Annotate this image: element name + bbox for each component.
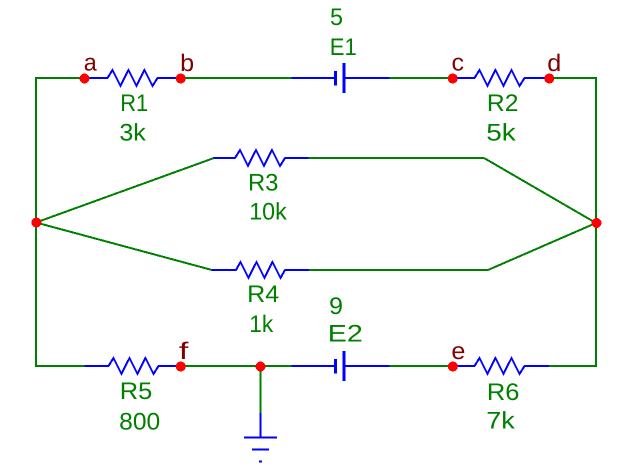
svg-text:a: a bbox=[84, 50, 98, 77]
svg-text:f: f bbox=[179, 338, 189, 365]
svg-text:E2: E2 bbox=[328, 321, 363, 348]
node left junction bbox=[31, 218, 41, 228]
wire diagonal R4 to right node bbox=[488, 223, 596, 270]
resistor R5 bbox=[84, 358, 180, 374]
wire R4 to right diagonal bbox=[308, 269, 488, 271]
wire bottom: R6 to corner bbox=[549, 365, 598, 367]
resistor R3 bbox=[214, 150, 309, 166]
wire ground stem bbox=[260, 366, 262, 414]
svg-text:1k: 1k bbox=[249, 311, 274, 338]
battery E2 bbox=[292, 365, 336, 367]
wire right vertical bbox=[595, 77, 597, 367]
wire diagonal R3 to right node bbox=[484, 158, 596, 223]
svg-text:e: e bbox=[451, 338, 465, 365]
svg-text:R5: R5 bbox=[120, 378, 153, 405]
node b bbox=[176, 74, 186, 84]
resistor R4 bbox=[212, 262, 310, 278]
svg-text:d: d bbox=[547, 50, 561, 77]
resistor R6 bbox=[453, 358, 549, 374]
wire diagonal left node to R4 bbox=[36, 223, 212, 271]
ground bbox=[260, 413, 262, 438]
wire left vertical bbox=[35, 77, 37, 367]
wire diagonal left node to R3 bbox=[36, 158, 214, 223]
svg-text:R2: R2 bbox=[487, 90, 519, 117]
resistor R2 bbox=[453, 70, 550, 86]
node ground junction bbox=[256, 362, 266, 372]
wire top: E1 to node c bbox=[390, 77, 454, 79]
svg-text:E1: E1 bbox=[330, 34, 357, 61]
wire top: corner to node a bbox=[35, 77, 85, 79]
wire R3 to right diagonal bbox=[308, 157, 484, 159]
node right junction bbox=[592, 218, 602, 228]
wire top: node d to corner bbox=[549, 77, 598, 79]
svg-text:R1: R1 bbox=[120, 90, 148, 117]
wire bottom: corner to R5 bbox=[35, 365, 85, 367]
svg-text:5k: 5k bbox=[486, 120, 517, 147]
wire top: node b to E1 bbox=[180, 77, 292, 79]
svg-text:800: 800 bbox=[119, 408, 160, 435]
node c bbox=[448, 74, 458, 84]
resistor R1 bbox=[85, 70, 181, 86]
svg-text:c: c bbox=[452, 50, 465, 77]
svg-text:9: 9 bbox=[329, 293, 343, 320]
node e bbox=[448, 362, 458, 372]
svg-text:3k: 3k bbox=[119, 120, 147, 147]
node d bbox=[544, 74, 554, 84]
svg-text:R6: R6 bbox=[487, 379, 520, 406]
wire bottom: node f to E2 bbox=[180, 365, 293, 367]
battery E1 bbox=[292, 77, 336, 79]
svg-text:7k: 7k bbox=[486, 408, 516, 435]
svg-text:10k: 10k bbox=[249, 199, 287, 226]
wire bottom: E2 to node e bbox=[389, 365, 454, 367]
node a bbox=[80, 74, 90, 84]
node f bbox=[176, 362, 186, 372]
svg-text:R3: R3 bbox=[248, 169, 279, 196]
svg-text:R4: R4 bbox=[247, 281, 279, 308]
svg-text:b: b bbox=[180, 50, 194, 77]
svg-text:5: 5 bbox=[330, 4, 343, 31]
